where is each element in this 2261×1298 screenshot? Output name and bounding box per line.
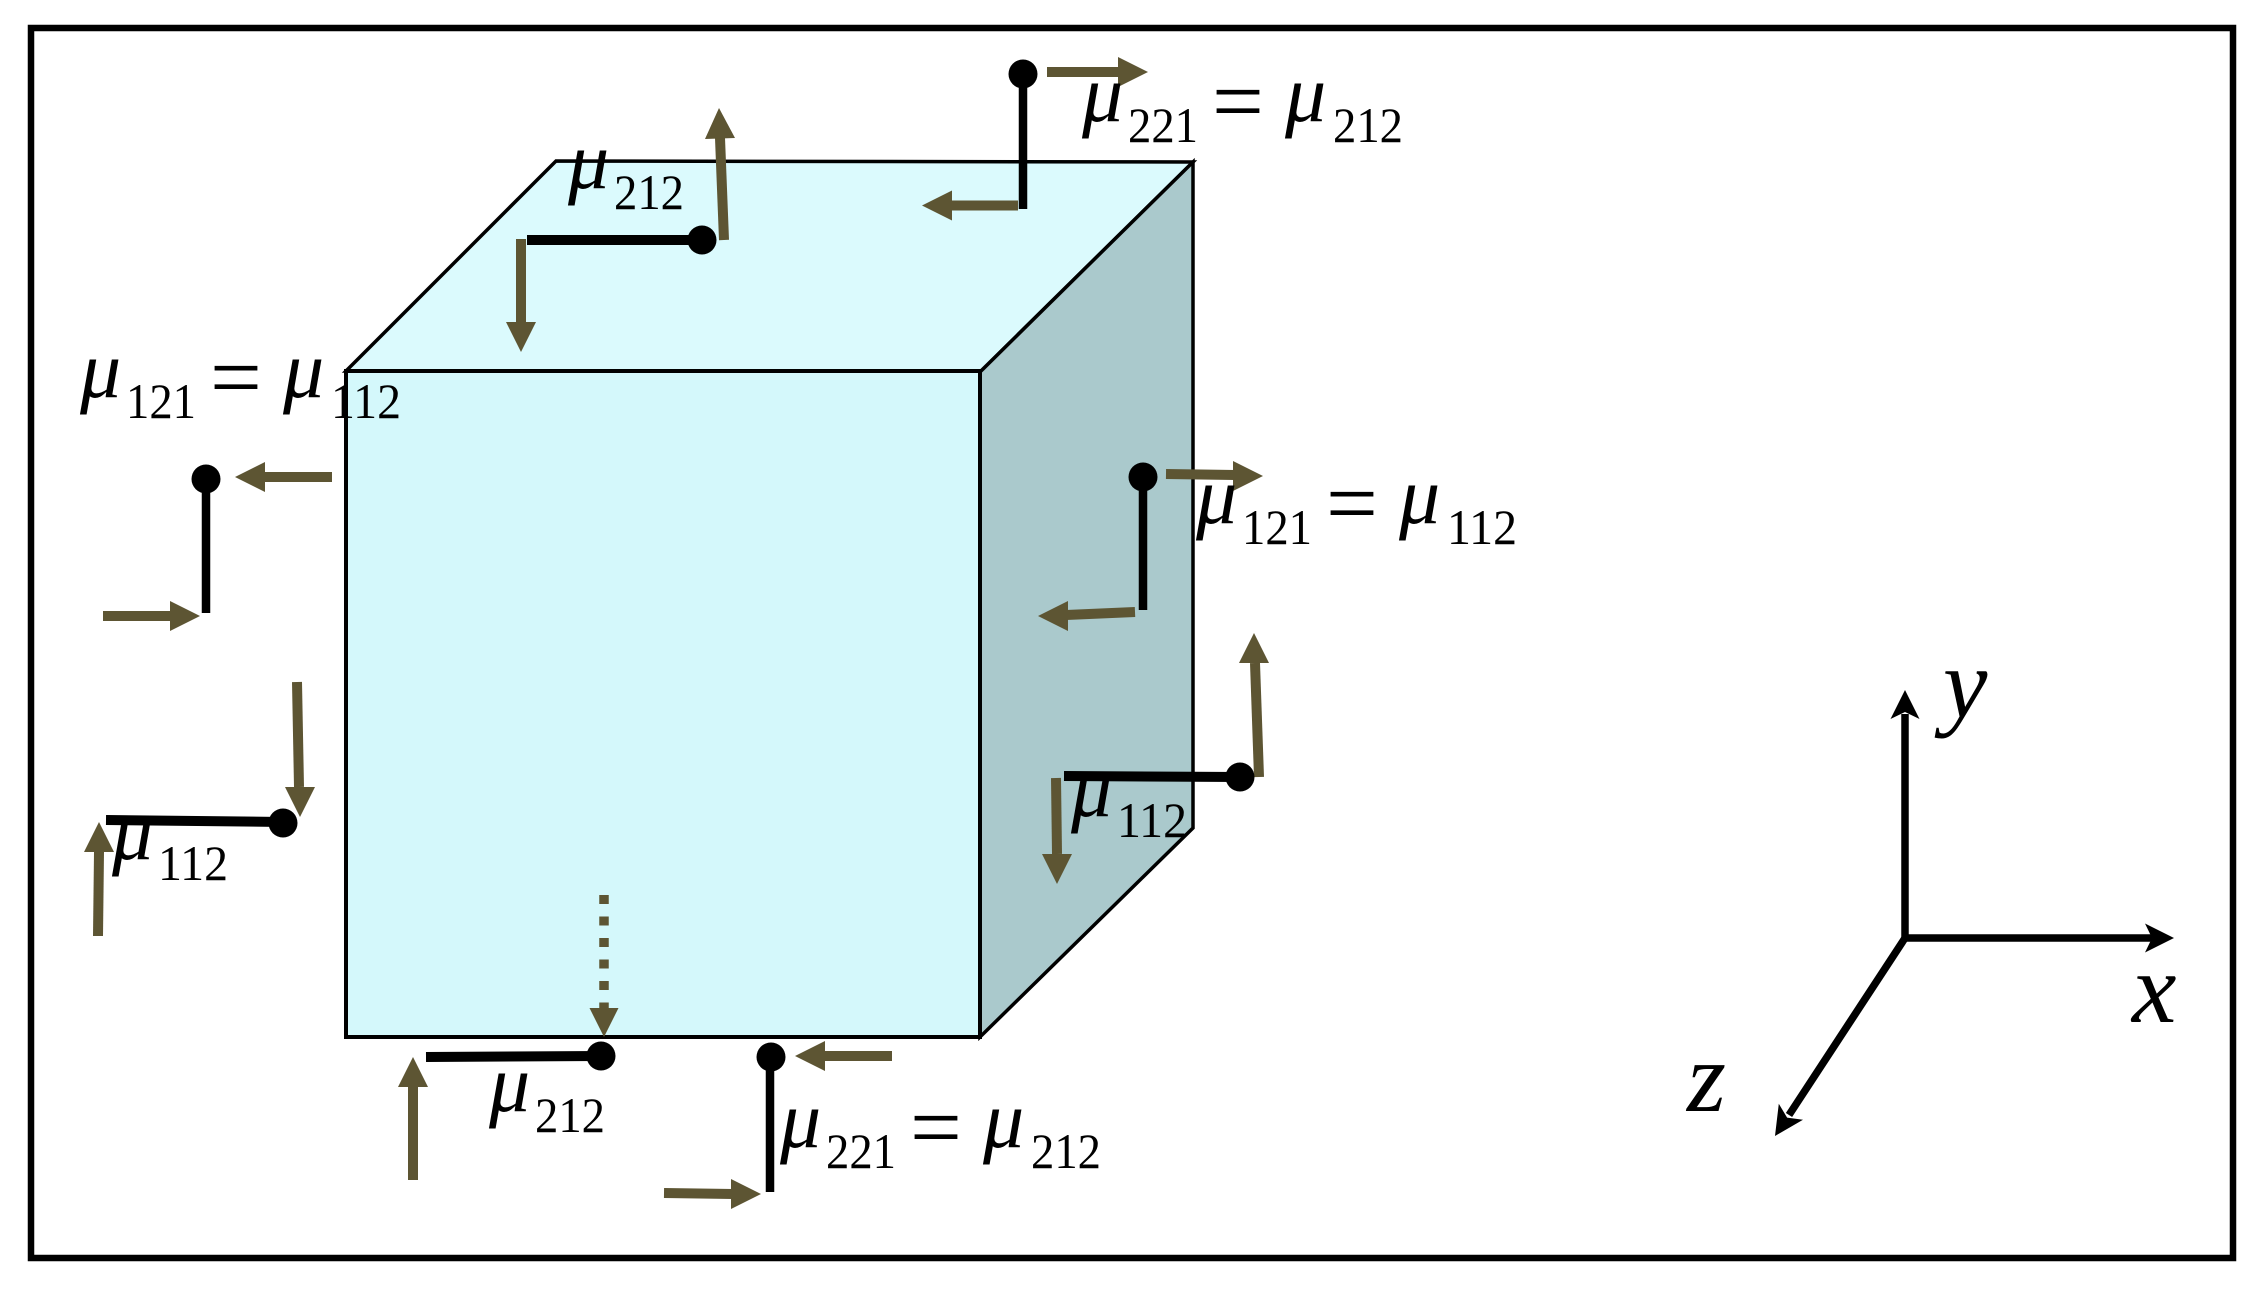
svg-text:221: 221 — [1128, 97, 1198, 153]
cube front face — [346, 371, 980, 1037]
label mu221 = mu212 (bottom right) — [779, 1074, 1101, 1179]
wire: vertical lever — [766, 1057, 775, 1192]
moment couple M6: right face lower — [1042, 633, 1269, 884]
arrow right (bottom) — [103, 611, 172, 621]
moment couple M4: left of cube (lower) — [84, 682, 315, 936]
svg-text:121: 121 — [1242, 499, 1312, 555]
lever — [1064, 776, 1240, 777]
svg-text:212: 212 — [614, 164, 684, 220]
node dot — [269, 809, 298, 838]
svg-text:μ: μ — [488, 1038, 530, 1129]
svg-text:112: 112 — [1447, 499, 1517, 555]
svg-text:y: y — [1934, 628, 1988, 739]
arrow up (right, near dot) — [720, 138, 724, 240]
arrow left (bottom) — [950, 201, 1018, 211]
lever — [426, 1056, 601, 1057]
label mu112 (right lower) — [1070, 743, 1187, 848]
svg-text:221: 221 — [826, 1123, 896, 1179]
svg-text:μ: μ — [567, 115, 609, 206]
arrow down (left end) — [1056, 778, 1057, 854]
label mu121 = mu112 (left) — [79, 324, 401, 429]
moment couple M5: on right face — [1038, 461, 1263, 631]
node dot — [688, 226, 717, 255]
moment couple M8: below cube (right) — [664, 1041, 892, 1209]
wire: vertical lever — [202, 479, 211, 613]
dashed arrow down (inside cube) — [599, 895, 609, 1008]
cube right face — [980, 162, 1193, 1037]
svg-text:μ: μ — [282, 324, 324, 415]
svg-text:=: = — [1326, 452, 1378, 554]
arrow up (right of dot) — [1255, 663, 1259, 777]
svg-text:=: = — [910, 1076, 962, 1178]
lever — [106, 820, 283, 822]
svg-text:112: 112 — [331, 373, 401, 429]
node dot — [757, 1043, 786, 1072]
svg-text:112: 112 — [1117, 792, 1187, 848]
svg-text:=: = — [1212, 50, 1264, 152]
arrow down (left end) — [516, 239, 526, 322]
label mu112 (left lower) — [111, 786, 228, 891]
wire: vertical lever — [1139, 477, 1148, 610]
arrow down (top) — [297, 682, 299, 787]
coordinate axes — [1685, 628, 2176, 1136]
wire: vertical lever — [1019, 74, 1028, 209]
arrow right (top) — [1047, 67, 1120, 77]
svg-text:112: 112 — [158, 835, 228, 891]
moment couple M1: top, above cube — [922, 57, 1148, 221]
svg-text:μ: μ — [1070, 743, 1112, 834]
svg-text:z: z — [1685, 1022, 1726, 1133]
svg-text:μ: μ — [1195, 450, 1237, 541]
moment couple M3: left of cube (upper) — [103, 462, 332, 631]
label mu212 (top face) — [567, 115, 684, 220]
x axis — [1905, 934, 2152, 942]
arrow up (bottom left) — [98, 852, 99, 936]
svg-text:μ: μ — [1398, 450, 1440, 541]
z axis — [1789, 938, 1905, 1115]
arrow left (top) — [823, 1051, 892, 1061]
label mu221 = mu212 (top) — [1081, 48, 1403, 153]
svg-text:μ: μ — [111, 786, 153, 877]
arrow up (left end) — [408, 1087, 418, 1180]
svg-text:μ: μ — [79, 324, 121, 415]
node dot — [192, 465, 221, 494]
svg-text:μ: μ — [1284, 48, 1326, 139]
lever — [527, 235, 701, 245]
node dot — [587, 1042, 616, 1071]
svg-text:212: 212 — [1333, 97, 1403, 153]
moment couple M2: on top face — [506, 108, 735, 352]
svg-text:μ: μ — [982, 1074, 1024, 1165]
svg-text:121: 121 — [126, 373, 196, 429]
svg-text:=: = — [210, 326, 262, 428]
label mu212 (bottom left) — [488, 1038, 605, 1143]
label mu121 = mu112 (right) — [1195, 450, 1517, 555]
arrow right (bottom) — [664, 1193, 733, 1194]
svg-text:μ: μ — [779, 1074, 821, 1165]
cube top face — [346, 161, 1193, 372]
svg-text:x: x — [2130, 933, 2176, 1044]
node dot — [1009, 60, 1038, 89]
svg-text:212: 212 — [1031, 1123, 1101, 1179]
y axis — [1901, 714, 1909, 938]
moment couple M7: below cube (left) — [398, 895, 619, 1180]
svg-text:212: 212 — [535, 1087, 605, 1143]
svg-text:μ: μ — [1081, 48, 1123, 139]
arrow right (top) — [1166, 474, 1235, 475]
arrow left (bottom) — [1066, 612, 1135, 615]
node dot — [1226, 763, 1255, 792]
arrow left (top) — [263, 472, 332, 482]
node dot — [1129, 463, 1158, 492]
